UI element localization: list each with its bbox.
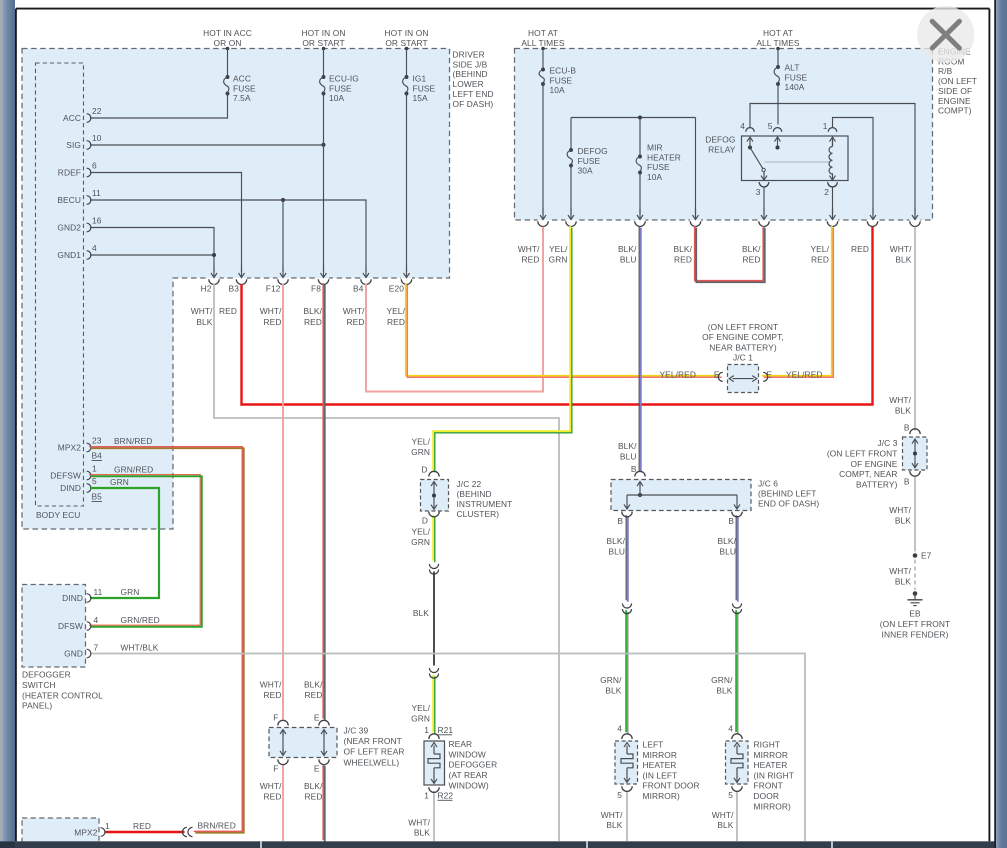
svg-text:(BEHIND: (BEHIND [453, 69, 488, 79]
svg-text:ACC: ACC [63, 113, 81, 123]
svg-text:NEAR BATTERY): NEAR BATTERY) [709, 342, 777, 352]
svg-text:FUSE: FUSE [233, 83, 256, 93]
svg-text:R22: R22 [438, 791, 454, 801]
svg-text:(BEHIND LEFT: (BEHIND LEFT [758, 489, 816, 499]
svg-text:GRN: GRN [411, 714, 430, 724]
svg-text:GND1: GND1 [57, 250, 81, 260]
svg-text:RED: RED [347, 317, 365, 327]
svg-text:WHT/: WHT/ [889, 566, 911, 576]
svg-text:4: 4 [92, 243, 97, 253]
svg-text:DEFOG: DEFOG [578, 146, 608, 156]
svg-text:BLK: BLK [414, 827, 430, 837]
svg-text:ENGINE: ENGINE [938, 96, 971, 106]
svg-text:E: E [767, 370, 773, 380]
svg-text:WHT/: WHT/ [890, 244, 912, 254]
svg-text:BLK: BLK [895, 515, 911, 525]
svg-text:RED: RED [264, 792, 282, 802]
svg-text:WHT/: WHT/ [260, 306, 282, 316]
svg-text:5: 5 [768, 121, 773, 131]
svg-text:GRN: GRN [411, 447, 430, 457]
svg-text:HOT IN ON: HOT IN ON [384, 28, 428, 38]
svg-text:BLK: BLK [895, 576, 911, 586]
svg-text:WHT/: WHT/ [889, 395, 911, 405]
svg-text:B4: B4 [353, 284, 364, 294]
svg-text:5: 5 [617, 790, 622, 800]
svg-text:7.5A: 7.5A [233, 93, 251, 103]
svg-text:4: 4 [740, 121, 745, 131]
svg-text:ECU-B: ECU-B [550, 66, 577, 76]
svg-text:(AT REAR: (AT REAR [449, 770, 488, 780]
svg-text:DEFSW: DEFSW [50, 471, 81, 481]
svg-text:BECU: BECU [57, 195, 81, 205]
svg-text:SIG: SIG [66, 140, 81, 150]
svg-text:HEATER: HEATER [754, 760, 788, 770]
svg-text:11: 11 [92, 188, 101, 198]
svg-text:WHT/: WHT/ [712, 810, 734, 820]
svg-text:HOT AT: HOT AT [528, 28, 558, 38]
svg-text:END OF DASH): END OF DASH) [758, 499, 819, 509]
svg-text:1: 1 [105, 821, 110, 831]
svg-text:BLK: BLK [895, 405, 911, 415]
svg-text:COMPT): COMPT) [938, 106, 972, 116]
svg-text:FUSE: FUSE [329, 83, 352, 93]
svg-text:FRONT DOOR: FRONT DOOR [643, 781, 700, 791]
svg-text:SWITCH: SWITCH [22, 680, 56, 690]
svg-text:CLUSTER): CLUSTER) [457, 509, 500, 519]
svg-text:15A: 15A [413, 93, 429, 103]
svg-text:RED: RED [522, 255, 540, 265]
svg-text:5: 5 [728, 790, 733, 800]
svg-text:RED: RED [387, 317, 405, 327]
svg-text:6: 6 [92, 161, 97, 171]
svg-text:LEFT END: LEFT END [453, 89, 494, 99]
svg-text:22: 22 [92, 106, 102, 116]
svg-text:1: 1 [92, 464, 97, 474]
svg-text:OF ENGINE: OF ENGINE [851, 459, 898, 469]
svg-text:DIND: DIND [60, 483, 81, 493]
svg-text:J/C 6: J/C 6 [758, 478, 778, 488]
svg-text:10A: 10A [329, 93, 345, 103]
svg-text:MIRROR: MIRROR [643, 750, 678, 760]
svg-text:GRN/RED: GRN/RED [114, 465, 153, 475]
svg-text:ALL TIMES: ALL TIMES [521, 38, 565, 48]
svg-text:OF LEFT REAR: OF LEFT REAR [344, 747, 405, 757]
svg-text:(HEATER CONTROL: (HEATER CONTROL [22, 690, 103, 700]
svg-text:WHT/: WHT/ [601, 810, 623, 820]
svg-text:2: 2 [824, 187, 829, 197]
svg-text:MIRROR): MIRROR) [754, 801, 792, 811]
svg-text:OR START: OR START [385, 38, 427, 48]
svg-text:DOOR: DOOR [754, 791, 780, 801]
svg-text:7: 7 [94, 643, 99, 653]
svg-text:B4: B4 [92, 451, 103, 461]
svg-text:WHT/: WHT/ [408, 818, 430, 828]
svg-text:BLU: BLU [719, 547, 736, 557]
svg-text:4: 4 [94, 615, 99, 625]
svg-text:BLK: BLK [606, 820, 622, 830]
svg-text:F8: F8 [311, 284, 321, 294]
svg-text:BATTERY): BATTERY) [856, 480, 898, 490]
svg-text:BLK/: BLK/ [303, 306, 322, 316]
svg-text:DEFOGGER: DEFOGGER [22, 670, 71, 680]
svg-text:HOT IN ACC: HOT IN ACC [203, 28, 252, 38]
svg-text:MIRROR: MIRROR [754, 750, 789, 760]
svg-text:B: B [904, 476, 910, 486]
svg-text:RED: RED [811, 255, 829, 265]
svg-text:BLK/: BLK/ [304, 781, 323, 791]
svg-text:WHT/: WHT/ [191, 306, 213, 316]
svg-text:RED: RED [674, 255, 692, 265]
svg-text:YEL/: YEL/ [411, 703, 430, 713]
svg-text:RELAY: RELAY [708, 145, 736, 155]
svg-text:MIR: MIR [647, 143, 663, 153]
svg-text:ACC: ACC [233, 74, 251, 84]
svg-text:YEL/RED: YEL/RED [659, 369, 696, 379]
svg-text:E7: E7 [921, 551, 932, 561]
svg-text:RED: RED [133, 821, 151, 831]
svg-text:BODY ECU: BODY ECU [36, 510, 80, 520]
svg-text:GRN/: GRN/ [711, 675, 733, 685]
svg-text:WHT/: WHT/ [260, 781, 282, 791]
svg-text:INSTRUMENT: INSTRUMENT [457, 499, 513, 509]
svg-text:E: E [714, 370, 720, 380]
svg-text:RED: RED [305, 792, 323, 802]
svg-text:WHEELWELL): WHEELWELL) [344, 757, 400, 767]
svg-text:BLK/: BLK/ [304, 680, 323, 690]
svg-text:F: F [273, 712, 278, 722]
svg-text:BLK: BLK [605, 686, 621, 696]
svg-text:BLK: BLK [413, 608, 429, 618]
svg-text:HEATER: HEATER [643, 760, 677, 770]
svg-text:(ON LEFT FRONT: (ON LEFT FRONT [880, 619, 951, 629]
svg-text:BLK: BLK [196, 317, 212, 327]
svg-text:16: 16 [92, 216, 102, 226]
svg-text:YEL/: YEL/ [549, 244, 568, 254]
svg-text:J/C 3: J/C 3 [877, 438, 897, 448]
svg-text:(ON LEFT: (ON LEFT [938, 76, 977, 86]
svg-text:DEFOG: DEFOG [705, 135, 735, 145]
svg-text:FUSE: FUSE [550, 75, 573, 85]
svg-text:E20: E20 [389, 284, 404, 294]
svg-text:DFSW: DFSW [58, 621, 83, 631]
svg-text:D: D [421, 465, 427, 475]
svg-text:R21: R21 [438, 725, 454, 735]
svg-text:BLK/: BLK/ [717, 536, 736, 546]
svg-text:(ON LEFT FRONT: (ON LEFT FRONT [708, 322, 779, 332]
svg-text:J/C 22: J/C 22 [457, 479, 482, 489]
svg-text:F: F [273, 764, 278, 774]
svg-text:YEL/: YEL/ [411, 527, 430, 537]
svg-text:PANEL): PANEL) [22, 701, 52, 711]
svg-text:(ON LEFT FRONT: (ON LEFT FRONT [827, 448, 898, 458]
svg-text:OF DASH): OF DASH) [453, 99, 494, 109]
svg-text:FUSE: FUSE [647, 162, 670, 172]
svg-text:ALL TIMES: ALL TIMES [756, 38, 800, 48]
svg-text:(IN RIGHT: (IN RIGHT [754, 770, 794, 780]
svg-text:BLK: BLK [895, 255, 911, 265]
svg-text:OR START: OR START [302, 38, 344, 48]
svg-text:D: D [422, 516, 428, 526]
svg-text:GRN: GRN [110, 477, 129, 487]
svg-text:WHT/: WHT/ [343, 306, 365, 316]
svg-text:1: 1 [424, 725, 429, 735]
svg-text:LEFT: LEFT [643, 740, 664, 750]
svg-text:4: 4 [617, 724, 622, 734]
svg-text:BLK/: BLK/ [606, 536, 625, 546]
svg-text:RED: RED [264, 690, 282, 700]
svg-text:DIND: DIND [62, 593, 83, 603]
svg-text:WINDOW): WINDOW) [449, 780, 489, 790]
svg-text:MPX2: MPX2 [58, 443, 81, 453]
svg-text:11: 11 [94, 587, 103, 597]
svg-text:FUSE: FUSE [785, 72, 808, 82]
svg-text:YEL/: YEL/ [810, 244, 829, 254]
svg-text:5: 5 [92, 476, 97, 486]
svg-text:DRIVER: DRIVER [453, 50, 485, 60]
svg-text:SIDE OF: SIDE OF [938, 86, 972, 96]
svg-text:RED: RED [264, 317, 282, 327]
svg-text:RED: RED [851, 244, 869, 254]
svg-text:RED: RED [219, 306, 237, 316]
svg-text:E: E [314, 712, 320, 722]
svg-text:OR ON: OR ON [214, 38, 242, 48]
svg-text:RED: RED [304, 317, 322, 327]
svg-text:10A: 10A [550, 85, 566, 95]
svg-text:RED: RED [743, 255, 761, 265]
svg-text:B: B [631, 464, 637, 474]
svg-text:23: 23 [92, 436, 102, 446]
svg-text:BRN/RED: BRN/RED [114, 436, 152, 446]
svg-text:FRONT: FRONT [754, 781, 783, 791]
svg-text:B3: B3 [229, 284, 240, 294]
svg-text:BLK/: BLK/ [742, 244, 761, 254]
svg-text:HOT AT: HOT AT [763, 28, 793, 38]
svg-text:YEL/: YEL/ [411, 437, 430, 447]
svg-text:WHT/: WHT/ [260, 680, 282, 690]
svg-text:WINDOW: WINDOW [449, 749, 486, 759]
svg-text:BLU: BLU [620, 452, 637, 462]
svg-text:4: 4 [728, 724, 733, 734]
svg-text:E: E [314, 764, 320, 774]
svg-text:YEL/RED: YEL/RED [786, 369, 823, 379]
svg-text:GND2: GND2 [57, 223, 81, 233]
svg-text:FUSE: FUSE [578, 156, 601, 166]
svg-text:F12: F12 [266, 284, 281, 294]
svg-text:GRN: GRN [411, 537, 430, 547]
svg-text:RIGHT: RIGHT [754, 740, 781, 750]
svg-text:HOT IN ON: HOT IN ON [301, 28, 345, 38]
svg-text:1: 1 [823, 121, 828, 131]
svg-text:WHT/: WHT/ [518, 244, 540, 254]
svg-text:HEATER: HEATER [647, 152, 681, 162]
svg-text:BRN/RED: BRN/RED [198, 821, 236, 831]
svg-text:MIRROR): MIRROR) [643, 791, 681, 801]
svg-text:GRN/RED: GRN/RED [121, 615, 160, 625]
svg-text:GRN: GRN [121, 587, 140, 597]
svg-text:WHT/: WHT/ [889, 505, 911, 515]
svg-text:DEFOGGER: DEFOGGER [449, 760, 498, 770]
svg-text:BLK: BLK [717, 820, 733, 830]
svg-text:(NEAR FRONT: (NEAR FRONT [344, 736, 402, 746]
svg-text:RED: RED [305, 690, 323, 700]
svg-text:10A: 10A [647, 172, 663, 182]
svg-text:COMPT, NEAR: COMPT, NEAR [839, 469, 897, 479]
svg-text:BLU: BLU [608, 547, 625, 557]
svg-text:LOWER: LOWER [453, 79, 484, 89]
svg-text:J/C 1: J/C 1 [733, 353, 753, 363]
svg-text:H2: H2 [201, 284, 212, 294]
svg-text:(BEHIND: (BEHIND [457, 489, 492, 499]
svg-text:IG1: IG1 [413, 74, 427, 84]
svg-text:BLK/: BLK/ [618, 441, 637, 451]
svg-text:REAR: REAR [449, 739, 473, 749]
svg-text:EB: EB [909, 609, 921, 619]
svg-text:SIDE J/B: SIDE J/B [453, 59, 488, 69]
svg-text:GRN: GRN [549, 255, 568, 265]
svg-text:B: B [617, 516, 623, 526]
svg-text:ALT: ALT [785, 63, 800, 73]
svg-text:GRN/: GRN/ [600, 675, 622, 685]
svg-text:WHT/BLK: WHT/BLK [121, 643, 159, 653]
svg-text:140A: 140A [785, 82, 805, 92]
svg-text:INNER FENDER): INNER FENDER) [882, 629, 949, 639]
svg-text:(IN LEFT: (IN LEFT [643, 770, 678, 780]
svg-text:ECU-IG: ECU-IG [329, 74, 359, 84]
svg-text:RDEF: RDEF [58, 168, 81, 178]
svg-text:OF ENGINE COMPT,: OF ENGINE COMPT, [702, 332, 784, 342]
svg-text:B: B [728, 516, 734, 526]
svg-text:BLK/: BLK/ [673, 244, 692, 254]
svg-text:J/C 39: J/C 39 [344, 726, 369, 736]
svg-text:MPX2: MPX2 [74, 828, 97, 838]
svg-text:BLK: BLK [716, 686, 732, 696]
svg-text:B5: B5 [92, 492, 103, 502]
svg-text:GND: GND [64, 649, 83, 659]
svg-text:10: 10 [92, 133, 102, 143]
svg-text:1: 1 [424, 791, 429, 801]
svg-text:FUSE: FUSE [413, 83, 436, 93]
svg-text:30A: 30A [578, 166, 594, 176]
svg-text:BLK/: BLK/ [618, 244, 637, 254]
svg-text:BLU: BLU [620, 255, 637, 265]
svg-text:B: B [904, 423, 910, 433]
svg-text:YEL/: YEL/ [386, 306, 405, 316]
svg-text:R/B: R/B [938, 66, 953, 76]
svg-text:3: 3 [756, 187, 761, 197]
